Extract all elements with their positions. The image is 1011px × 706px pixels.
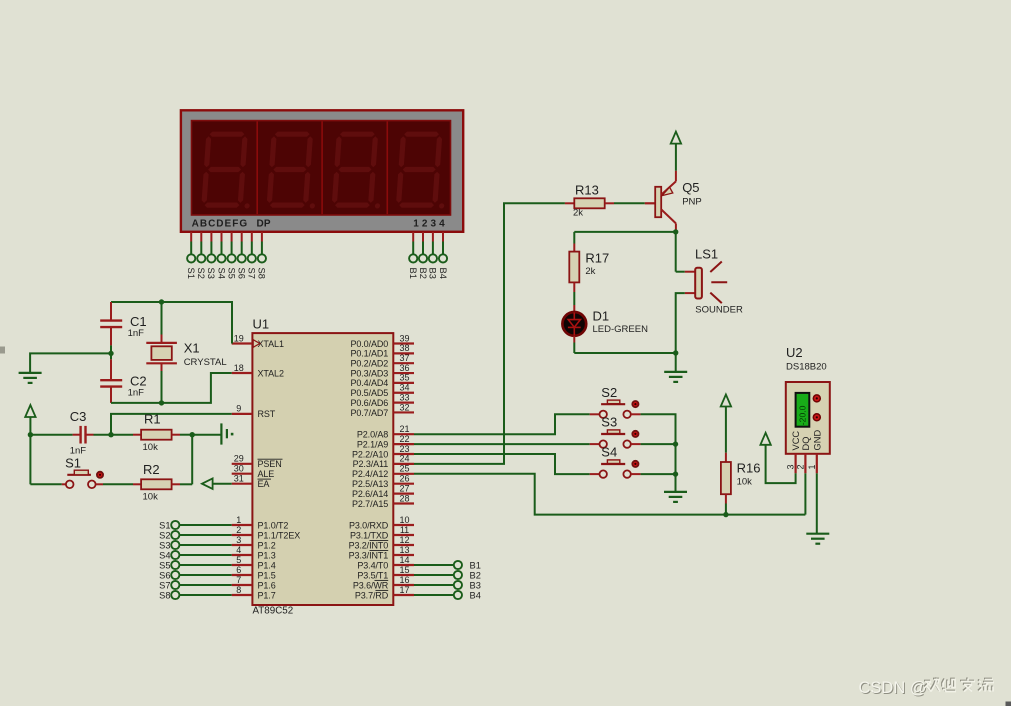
svg-text:1: 1: [236, 515, 241, 525]
svg-text:S6: S6: [237, 268, 247, 279]
wire gnd branch: [30, 353, 111, 372]
wire bottom rail X1 to XTAL2: [111, 373, 232, 403]
svg-text:1nF: 1nF: [128, 388, 145, 399]
svg-text:SOUNDER: SOUNDER: [695, 305, 743, 316]
svg-text:P2.0/A8: P2.0/A8: [357, 430, 388, 440]
sounder LS1: [676, 262, 728, 354]
pin P0.5/AD5 (34): [350, 383, 414, 399]
label LS1: [695, 247, 718, 262]
svg-text:13: 13: [399, 545, 409, 555]
svg-text:3: 3: [236, 535, 241, 545]
svg-text:CRYSTAL: CRYSTAL: [184, 357, 227, 368]
label PNP: [682, 197, 702, 208]
svg-text:15: 15: [399, 565, 409, 575]
label R17: [585, 250, 609, 265]
svg-text:10k: 10k: [143, 492, 159, 503]
svg-text:21: 21: [399, 424, 409, 434]
value 10k (R2): [143, 492, 159, 503]
watermark chinese glyphs: [924, 678, 994, 692]
pin P1.5 (6): [232, 565, 276, 581]
svg-text:S3: S3: [159, 540, 170, 550]
label C2: [130, 374, 147, 389]
resistor R16: [721, 453, 731, 515]
svg-text:27: 27: [399, 483, 409, 493]
U2 pin stubs: [796, 454, 817, 474]
svg-text:12: 12: [399, 535, 409, 545]
svg-text:28: 28: [399, 493, 409, 503]
svg-text:DQ: DQ: [801, 437, 811, 451]
wire DQ: [804, 473, 806, 514]
label C1: [130, 314, 147, 329]
svg-text:P2.5/A13: P2.5/A13: [352, 479, 388, 489]
label U2: [786, 345, 803, 360]
pin P1.3 (4): [232, 545, 276, 561]
label C3: [70, 409, 87, 424]
svg-text:37: 37: [399, 353, 409, 363]
value 2k (R13): [573, 208, 583, 219]
wire P2.0 to S2: [414, 414, 590, 434]
wire D1 to gnd rail: [574, 352, 675, 354]
svg-text:ALE: ALE: [258, 469, 275, 479]
display segment pins S1-S8 terminals: [186, 232, 267, 279]
svg-text:VCC: VCC: [791, 431, 801, 451]
resistor R2: [133, 479, 192, 489]
svg-text:B4: B4: [438, 268, 448, 279]
pin P0.3/AD3 (36): [350, 363, 414, 379]
svg-text:S1: S1: [65, 455, 81, 470]
label R1: [144, 412, 161, 427]
svg-text:2: 2: [236, 525, 241, 535]
svg-text:P2.3/A11: P2.3/A11: [353, 459, 389, 469]
node junction X1 bottom: [159, 400, 164, 405]
svg-text:22: 22: [399, 434, 409, 444]
svg-text:7: 7: [236, 575, 241, 585]
capacitor C3: [73, 426, 111, 444]
svg-text:1nF: 1nF: [128, 328, 145, 339]
svg-text:B2: B2: [418, 268, 428, 279]
svg-text:P3.7/RD: P3.7/RD: [355, 590, 389, 600]
svg-text:10: 10: [399, 515, 409, 525]
svg-text:8: 8: [236, 585, 241, 595]
pin P3.3/INT1 (13): [349, 545, 414, 561]
svg-text:Q5: Q5: [682, 180, 699, 195]
pin RST (9): [232, 404, 276, 420]
svg-text:10k: 10k: [143, 442, 159, 453]
svg-text:S2: S2: [159, 530, 170, 540]
pin ALE (30): [232, 464, 275, 480]
svg-text:U1: U1: [253, 317, 270, 332]
svg-text:AT89C52: AT89C52: [253, 606, 294, 617]
svg-text:S5: S5: [226, 268, 236, 279]
svg-text:14: 14: [399, 555, 409, 565]
svg-text:18: 18: [234, 363, 244, 373]
op chip U1 AT89C52 body: [252, 333, 393, 605]
svg-text:2k: 2k: [585, 266, 595, 277]
node junction C3/RST/R1: [108, 432, 113, 437]
svg-text:B1: B1: [408, 268, 418, 279]
svg-text:S7: S7: [159, 580, 170, 590]
svg-text:-20.0: -20.0: [798, 405, 808, 425]
svg-text:36: 36: [399, 363, 409, 373]
svg-text:LED-GREEN: LED-GREEN: [593, 324, 649, 335]
U2 pin labels: [791, 430, 822, 451]
svg-text:5: 5: [236, 555, 241, 565]
node junction R16/DQ: [723, 512, 728, 517]
svg-text:XTAL2: XTAL2: [258, 368, 284, 378]
label R13: [575, 183, 599, 198]
svg-text:P1.6: P1.6: [258, 580, 276, 590]
pin P3.5/T1 (15): [357, 565, 414, 581]
value 1nF (C3): [70, 446, 87, 457]
label DS18B20: [786, 362, 827, 373]
pin P3.0/RXD (10): [349, 515, 414, 531]
svg-text:6: 6: [236, 565, 241, 575]
svg-text:P3.1/TXD: P3.1/TXD: [350, 530, 389, 540]
svg-text:P0.1/AD1: P0.1/AD1: [350, 349, 388, 359]
ground (switches): [664, 492, 687, 502]
svg-text:B3: B3: [428, 268, 438, 279]
value 1nF (C1): [128, 328, 145, 339]
svg-text:P0.2/AD2: P0.2/AD2: [350, 359, 388, 369]
pin P3.6/WR (16): [353, 575, 414, 591]
svg-text:30: 30: [234, 464, 244, 474]
wire P2.1 to S3: [414, 443, 590, 445]
watermark CSDN: [859, 679, 928, 698]
resistor R13: [565, 198, 645, 208]
pin P0.6/AD6 (33): [350, 392, 414, 408]
switch S1: [30, 435, 133, 488]
svg-text:RST: RST: [258, 409, 276, 419]
svg-text:P1.4: P1.4: [258, 560, 276, 570]
node junction S4 gnd: [673, 471, 678, 476]
svg-text:C2: C2: [130, 374, 147, 389]
diode D1 LED-GREEN: [562, 305, 586, 353]
svg-text:P1.7: P1.7: [258, 590, 276, 600]
svg-text:R17: R17: [585, 250, 609, 265]
svg-text:P1.5: P1.5: [258, 570, 276, 580]
svg-text:C1: C1: [130, 314, 147, 329]
ground (sounder): [664, 353, 687, 382]
svg-text:R16: R16: [737, 461, 761, 476]
pin P0.0/AD0 (39): [350, 333, 414, 349]
pin P3.2/INT0 (12): [349, 535, 414, 551]
pin P0.4/AD4 (35): [350, 373, 414, 389]
svg-text:S1: S1: [186, 268, 196, 279]
svg-text:S1: S1: [159, 520, 170, 530]
pin XTAL1 (19): [232, 333, 284, 349]
svg-text:XTAL1: XTAL1: [258, 339, 284, 349]
wire C1-C2 node: [110, 345, 112, 359]
U2 temperature display: [796, 393, 810, 427]
svg-text:P2.2/A10: P2.2/A10: [352, 449, 388, 459]
pin P2.2/A10 (23): [352, 444, 414, 460]
svg-text:S6: S6: [159, 570, 170, 580]
label R2: [143, 462, 160, 477]
label LED-GREEN: [593, 324, 649, 335]
wire VCC to C3: [30, 434, 72, 436]
node junction R1/R2: [190, 432, 195, 437]
pin P1.1/T2EX (2): [232, 525, 301, 541]
svg-text:3: 3: [786, 464, 796, 469]
svg-text:CSDN @: CSDN @: [859, 679, 927, 697]
svg-text:S8: S8: [257, 268, 267, 279]
wire switches to ground: [641, 414, 676, 492]
svg-text:P2.1/A9: P2.1/A9: [357, 439, 388, 449]
svg-text:35: 35: [399, 373, 409, 383]
pin P2.7/A15 (28): [352, 493, 414, 509]
capacitor C1: [100, 302, 122, 345]
svg-text:P3.2/INT0: P3.2/INT0: [349, 540, 389, 550]
pin P0.2/AD2 (37): [350, 353, 414, 369]
svg-text:25: 25: [399, 464, 409, 474]
label CRYSTAL: [184, 357, 227, 368]
node junction X1 top: [159, 299, 164, 304]
U2 down button: [813, 414, 820, 421]
svg-text:ABCDEFG: ABCDEFG: [192, 219, 248, 230]
wire collector rail: [574, 232, 675, 272]
svg-text:GND: GND: [812, 430, 822, 451]
svg-text:DS18B20: DS18B20: [786, 362, 827, 373]
wire U2 gnd: [816, 473, 818, 533]
svg-text:P2.7/A15: P2.7/A15: [352, 499, 388, 509]
edge artifact left: [0, 347, 5, 354]
svg-text:LS1: LS1: [695, 247, 718, 262]
svg-text:P1.0/T2: P1.0/T2: [258, 520, 289, 530]
wire P2.2 to S4: [414, 454, 590, 474]
corner artifact bottom-right: [1006, 702, 1011, 706]
value 1nF (C2): [128, 388, 145, 399]
switch S4: [590, 445, 641, 478]
svg-text:17: 17: [399, 585, 409, 595]
svg-text:S7: S7: [247, 268, 257, 279]
svg-text:S8: S8: [159, 590, 170, 600]
svg-text:U2: U2: [786, 345, 803, 360]
terminals B1-B4 (port3): [414, 560, 481, 600]
U2 up button: [813, 395, 820, 402]
svg-text:S5: S5: [159, 560, 170, 570]
U2 pin numbers: [786, 464, 817, 469]
svg-text:P3.0/RXD: P3.0/RXD: [349, 520, 389, 530]
svg-text:19: 19: [234, 333, 244, 343]
svg-text:R13: R13: [575, 183, 599, 198]
svg-text:P0.7/AD7: P0.7/AD7: [350, 408, 388, 418]
pin P1.7 (8): [232, 585, 276, 601]
label SOUNDER: [695, 305, 743, 316]
label D1: [593, 309, 610, 324]
pin P2.0/A8 (21): [357, 424, 414, 440]
svg-text:DP: DP: [257, 219, 271, 230]
svg-text:2: 2: [795, 464, 805, 469]
svg-text:B4: B4: [470, 590, 481, 600]
svg-text:24: 24: [399, 454, 409, 464]
capacitor C2: [100, 359, 122, 403]
svg-text:S3: S3: [206, 268, 216, 279]
svg-text:4: 4: [236, 545, 241, 555]
pin P1.4 (5): [232, 555, 276, 571]
node junction LS1 gnd: [673, 350, 678, 355]
svg-text:P0.6/AD6: P0.6/AD6: [350, 398, 388, 408]
svg-text:P0.4/AD4: P0.4/AD4: [350, 378, 388, 388]
pin P3.1/TXD (11): [350, 525, 414, 541]
value 10k (R16): [737, 477, 753, 488]
terminals S1-S8 (port1): [159, 520, 232, 600]
pin P0.1/AD1 (38): [350, 343, 414, 359]
svg-text:R1: R1: [144, 412, 161, 427]
wire RST net: [111, 414, 232, 435]
svg-text:P2.4/A12: P2.4/A12: [352, 469, 388, 479]
svg-text:P3.5/T1: P3.5/T1: [357, 570, 388, 580]
svg-text:B1: B1: [470, 560, 481, 570]
value 2k (R17): [585, 266, 595, 277]
svg-text:C3: C3: [70, 409, 87, 424]
svg-text:S4: S4: [159, 550, 170, 560]
svg-text:34: 34: [399, 383, 409, 393]
resistor R1: [111, 430, 192, 440]
label Q5: [682, 180, 699, 195]
svg-text:PNP: PNP: [682, 197, 702, 208]
svg-text:S3: S3: [601, 415, 617, 430]
crystal X1: [146, 302, 177, 403]
power VCC (reset): [25, 405, 35, 435]
svg-text:S2: S2: [601, 385, 617, 400]
svg-text:1: 1: [807, 464, 817, 469]
power VCC (R16): [721, 395, 731, 453]
svg-text:P3.3/INT1: P3.3/INT1: [349, 550, 389, 560]
svg-text:11: 11: [400, 525, 409, 535]
transistor Q5 PNP: [645, 171, 676, 232]
node junction S3 gnd: [673, 441, 678, 446]
pin P0.7/AD7 (32): [350, 402, 414, 418]
svg-text:D1: D1: [593, 309, 610, 324]
svg-text:P0.5/AD5: P0.5/AD5: [350, 388, 388, 398]
pin EA (31): [232, 474, 271, 490]
display DS1 (4-digit 7-segment, common): [181, 110, 463, 232]
svg-text:P0.3/AD3: P0.3/AD3: [350, 368, 388, 378]
svg-text:9: 9: [236, 404, 241, 414]
pin P1.6 (7): [232, 575, 276, 591]
pin P3.4/T0 (14): [357, 555, 414, 571]
pin P2.3/A11 (24): [353, 454, 414, 470]
node junction C1/C2/gnd: [108, 351, 113, 356]
svg-text:2k: 2k: [573, 208, 583, 219]
svg-text:P1.1/T2EX: P1.1/T2EX: [258, 530, 301, 540]
svg-text:PSEN: PSEN: [258, 459, 282, 469]
svg-text:S4: S4: [601, 445, 617, 460]
svg-text:P3.4/T0: P3.4/T0: [357, 560, 388, 570]
svg-text:B3: B3: [470, 580, 481, 590]
pin PSEN (29): [232, 454, 283, 470]
svg-text:X1: X1: [184, 341, 200, 356]
label R16: [737, 461, 761, 476]
svg-text:S4: S4: [216, 268, 226, 279]
pin XTAL2 (18): [232, 363, 284, 379]
wire R1 to R2: [191, 435, 193, 485]
power VCC (U2): [760, 433, 795, 483]
svg-text:R2: R2: [143, 462, 160, 477]
svg-text:31: 31: [234, 474, 244, 484]
label AT89C52: [253, 606, 294, 617]
wire P2.4 to DQ: [414, 474, 805, 515]
svg-text:P1.2: P1.2: [258, 540, 276, 550]
switch S3: [590, 415, 641, 448]
svg-text:26: 26: [399, 474, 409, 484]
svg-text:33: 33: [399, 392, 409, 402]
value 10k (R1): [143, 442, 159, 453]
power VCC (Q5): [671, 132, 681, 171]
pin P2.4/A12 (25): [352, 464, 414, 480]
svg-text:10k: 10k: [737, 477, 753, 488]
label S1: [65, 455, 81, 470]
svg-text:EA: EA: [258, 479, 270, 489]
node junction Q5 collector: [673, 229, 678, 234]
svg-text:P3.6/WR: P3.6/WR: [353, 580, 389, 590]
svg-text:P2.6/A14: P2.6/A14: [352, 489, 388, 499]
display digit pins B1-B4 terminals: [408, 232, 448, 279]
svg-text:S2: S2: [196, 268, 206, 279]
svg-text:38: 38: [399, 343, 409, 353]
ground (crystal): [19, 373, 42, 383]
svg-text:16: 16: [399, 575, 409, 585]
wire EA arrow: [202, 479, 232, 489]
wire top rail C1/X1 to XTAL1: [111, 302, 232, 344]
svg-text:32: 32: [399, 402, 409, 412]
pin P1.0/T2 (1): [232, 515, 289, 531]
label X1: [184, 341, 200, 356]
svg-text:39: 39: [399, 333, 409, 343]
svg-text:29: 29: [234, 454, 244, 464]
pin P3.7/RD (17): [355, 585, 414, 601]
sensor U2 DS18B20 body: [786, 382, 830, 454]
wire P2.3 to R13: [414, 203, 565, 464]
label U1: [253, 317, 270, 332]
pin P2.5/A13 (26): [352, 474, 414, 490]
node junction VCC/C3/S1: [28, 432, 33, 437]
svg-text:P0.0/AD0: P0.0/AD0: [350, 339, 388, 349]
svg-text:23: 23: [399, 444, 409, 454]
ground (U2): [806, 534, 829, 544]
svg-text:P1.3: P1.3: [258, 550, 276, 560]
battery cell symbol: [192, 423, 233, 444]
pin P2.6/A14 (27): [352, 483, 414, 499]
pin P1.2 (3): [232, 535, 276, 551]
pin P2.1/A9 (22): [357, 434, 414, 450]
switch S2: [590, 385, 641, 418]
svg-text:B2: B2: [470, 570, 481, 580]
resistor R17: [569, 232, 579, 305]
